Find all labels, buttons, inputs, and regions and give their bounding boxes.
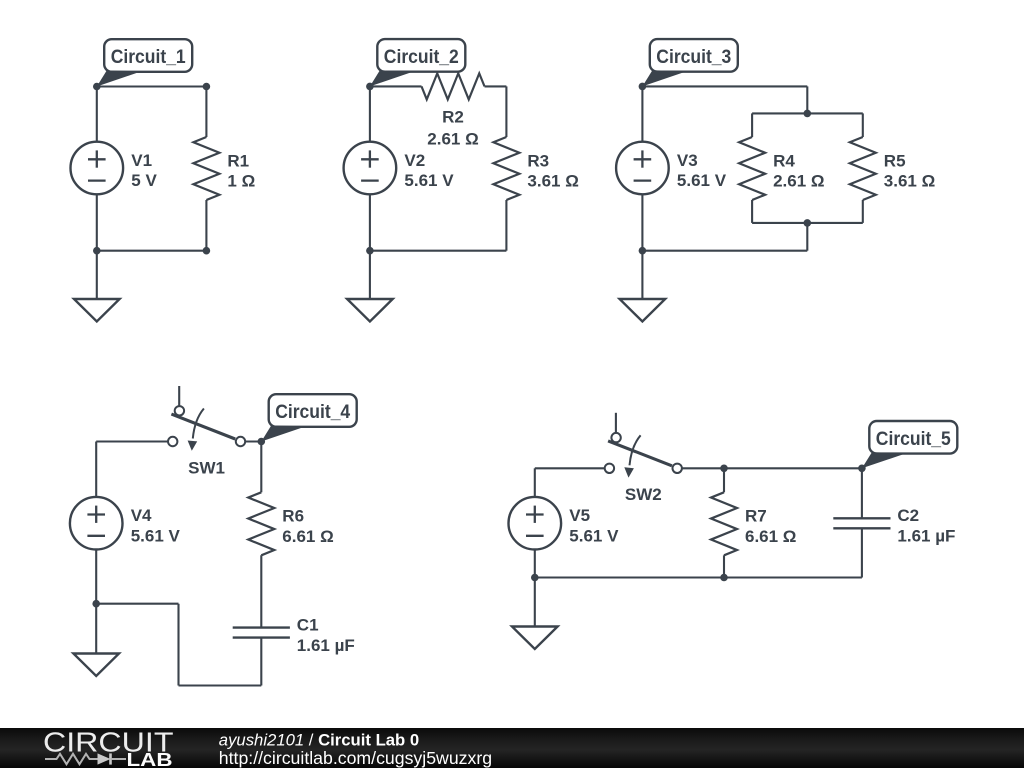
wire R2 to corner bbox=[485, 85, 507, 87]
node C3 top-left bbox=[639, 83, 647, 91]
svg-text:Circuit_1: Circuit_1 bbox=[111, 47, 186, 68]
svg-text:Circuit_5: Circuit_5 bbox=[876, 429, 951, 450]
wire to ground C4 bbox=[95, 604, 97, 654]
svg-text:R1: R1 bbox=[227, 151, 249, 170]
node C3 bar top bbox=[804, 110, 812, 118]
voltage source V4 bbox=[70, 497, 123, 550]
ground C5 bbox=[512, 627, 558, 650]
svg-text:2.61 Ω: 2.61 Ω bbox=[427, 130, 478, 149]
svg-text:5.61 V: 5.61 V bbox=[404, 171, 454, 190]
wire R4 bottom lead bbox=[751, 200, 753, 223]
svg-text:5.61 V: 5.61 V bbox=[677, 171, 727, 190]
svg-text:Circuit_3: Circuit_3 bbox=[656, 47, 731, 68]
wire bottom C5 bbox=[535, 576, 862, 578]
svg-text:1 Ω: 1 Ω bbox=[227, 172, 255, 191]
svg-text:R7: R7 bbox=[745, 507, 767, 526]
wire R6 to C1cap bbox=[260, 555, 262, 627]
resistor R1 bbox=[193, 137, 219, 200]
svg-text:1.61 µF: 1.61 µF bbox=[297, 636, 355, 655]
svg-text:R6: R6 bbox=[282, 507, 304, 526]
node C2 top-left bbox=[366, 83, 374, 91]
wire V4 bottom lead bbox=[95, 550, 97, 604]
ground C2 bbox=[347, 299, 393, 322]
wire V3 bottom lead bbox=[641, 194, 643, 250]
wire R5 bottom lead bbox=[862, 200, 864, 223]
node C5 bottom-mid bbox=[720, 574, 728, 582]
svg-text:1.61 µF: 1.61 µF bbox=[897, 527, 955, 546]
wire bottom rail 1 bbox=[96, 603, 178, 605]
wire bottom C2 bbox=[370, 250, 507, 252]
wire C1cap bottom lead bbox=[260, 638, 262, 686]
wire switch to R7 node bbox=[682, 467, 724, 469]
node C4 switch-right bbox=[258, 438, 266, 446]
wire parallel bottom bar bbox=[752, 222, 863, 224]
voltage source V2 bbox=[344, 142, 397, 195]
wire top C3 bbox=[642, 85, 807, 87]
wire R5 top lead bbox=[862, 113, 864, 137]
wire switch to node bbox=[245, 440, 261, 442]
svg-text:V4: V4 bbox=[131, 506, 152, 525]
svg-text:3.61 Ω: 3.61 Ω bbox=[884, 172, 935, 191]
wire bottom rail 2 bbox=[177, 604, 179, 686]
wire to ground C2 bbox=[369, 251, 371, 299]
wire R7 top lead bbox=[723, 468, 725, 492]
wire V1 top lead bbox=[96, 87, 98, 142]
voltage source V3 bbox=[616, 142, 669, 195]
wire to R2 bbox=[370, 85, 422, 87]
wire top C1 bbox=[97, 85, 207, 87]
voltage source V1 bbox=[71, 142, 124, 195]
svg-text:V5: V5 bbox=[569, 506, 590, 525]
resistor R2 bbox=[422, 73, 485, 99]
wire top C4 bbox=[96, 440, 168, 442]
svg-text:Circuit_2: Circuit_2 bbox=[384, 47, 459, 68]
svg-text:SW1: SW1 bbox=[188, 458, 225, 477]
svg-text:6.61 Ω: 6.61 Ω bbox=[282, 527, 333, 546]
wire V1 bottom lead bbox=[96, 194, 98, 250]
wire V5 top lead bbox=[534, 468, 536, 497]
svg-text:6.61 Ω: 6.61 Ω bbox=[745, 527, 796, 546]
wire R6 top lead bbox=[260, 442, 262, 493]
resistor R6 bbox=[248, 492, 274, 555]
wire bottom C1 bbox=[97, 250, 207, 252]
wire top C5 bbox=[535, 467, 605, 469]
wire R7 node to C2 node bbox=[724, 467, 862, 469]
wire C2 bottom lead bbox=[861, 528, 863, 577]
svg-text:ayushi2101 / Circuit Lab 0: ayushi2101 / Circuit Lab 0 bbox=[219, 731, 419, 750]
wire R3 bottom lead bbox=[505, 200, 507, 251]
svg-text:R2: R2 bbox=[442, 108, 464, 127]
node C1 bottom-left bbox=[93, 247, 101, 255]
svg-text:V1: V1 bbox=[131, 151, 152, 170]
node C5 bottom-left bbox=[531, 574, 539, 582]
node C1 top-left bbox=[93, 83, 101, 91]
svg-text:R3: R3 bbox=[527, 151, 549, 170]
wire V5 bottom lead bbox=[534, 550, 536, 578]
capacitor C1 bbox=[233, 628, 290, 638]
wire V3 top lead bbox=[641, 86, 643, 141]
wire bottom rail 3 bbox=[179, 684, 262, 686]
footer bar bbox=[0, 728, 1024, 768]
node C5 top-mid bbox=[720, 465, 728, 473]
switch SW2 bbox=[605, 413, 682, 478]
svg-text:SW2: SW2 bbox=[625, 485, 662, 504]
wire C2 top lead bbox=[861, 468, 863, 518]
svg-text:V2: V2 bbox=[404, 151, 425, 170]
wire bar to bottom bbox=[806, 223, 808, 251]
resistor R3 bbox=[493, 137, 519, 200]
wire R3 top lead bbox=[505, 86, 507, 137]
node C1 top-right bbox=[203, 83, 211, 91]
ground C1 bbox=[74, 299, 120, 322]
callout Circuit_1 bbox=[97, 39, 192, 86]
wire to ground C5 bbox=[534, 578, 536, 627]
wire to ground C3 bbox=[641, 251, 643, 299]
node C4 bottom-left bbox=[92, 600, 100, 608]
resistor R7 bbox=[711, 492, 737, 555]
wire R1 top lead bbox=[205, 87, 207, 138]
wire bottom C3 bbox=[642, 250, 807, 252]
svg-text:5.61 V: 5.61 V bbox=[131, 526, 181, 545]
svg-text:LAB: LAB bbox=[127, 749, 173, 768]
wire V2 top lead bbox=[369, 86, 371, 141]
svg-text:5.61 V: 5.61 V bbox=[569, 526, 619, 545]
svg-text:C1: C1 bbox=[297, 615, 319, 634]
svg-text:2.61 Ω: 2.61 Ω bbox=[773, 172, 824, 191]
svg-text:http://circuitlab.com/cugsyj5w: http://circuitlab.com/cugsyj5wuzxrg bbox=[219, 748, 492, 768]
svg-text:R5: R5 bbox=[884, 151, 906, 170]
wire R4 top lead bbox=[751, 113, 753, 137]
wire R1 bottom lead bbox=[205, 200, 207, 251]
callout Circuit_5 bbox=[862, 421, 957, 468]
resistor R4 bbox=[739, 137, 765, 200]
svg-text:3.61 Ω: 3.61 Ω bbox=[527, 172, 578, 191]
logo resistor squiggle bbox=[45, 754, 98, 764]
svg-text:Circuit_4: Circuit_4 bbox=[275, 402, 350, 423]
resistor R5 bbox=[850, 137, 876, 200]
wire to ground C1 bbox=[96, 251, 98, 299]
capacitor C2 bbox=[833, 518, 890, 528]
switch SW1 bbox=[168, 386, 245, 451]
wire V4 top lead bbox=[95, 442, 97, 498]
callout Circuit_3 bbox=[642, 39, 737, 86]
wire down to parallel bar bbox=[806, 86, 808, 113]
node C2 bottom-left bbox=[366, 247, 374, 255]
node C5 top-right bbox=[858, 465, 866, 473]
svg-text:C2: C2 bbox=[897, 506, 919, 525]
node C1 bottom-right bbox=[203, 247, 211, 255]
ground C3 bbox=[620, 299, 666, 322]
svg-text:R4: R4 bbox=[773, 151, 795, 170]
wire V2 bottom lead bbox=[369, 194, 371, 250]
ground C4 bbox=[73, 654, 119, 677]
node C3 bar bottom bbox=[804, 219, 812, 227]
svg-text:5 V: 5 V bbox=[131, 171, 157, 190]
callout Circuit_2 bbox=[370, 39, 465, 86]
wire R7 bottom lead bbox=[723, 555, 725, 577]
logo diode bbox=[98, 753, 111, 764]
svg-text:V3: V3 bbox=[677, 151, 698, 170]
node C3 bottom-left bbox=[639, 247, 647, 255]
callout Circuit_4 bbox=[261, 394, 356, 441]
voltage source V5 bbox=[509, 497, 562, 550]
wire parallel top bar bbox=[752, 112, 863, 114]
